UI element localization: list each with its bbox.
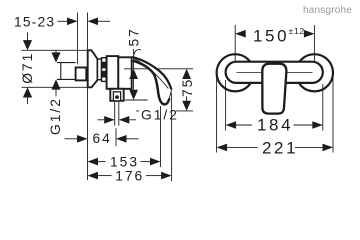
svg-text:64: 64 <box>93 131 112 146</box>
dim G1/2 inlet top arrow <box>51 51 60 63</box>
outlet G1/2 extension line left <box>114 101 116 126</box>
svg-text:G1/2: G1/2 <box>48 97 63 135</box>
axis reference line <box>124 68 193 70</box>
dim G1/2 outlet left arrow <box>98 116 115 124</box>
dim 184 left arrow <box>226 121 252 129</box>
dim 176 right arrow <box>146 172 172 180</box>
svg-text:G1/2: G1/2 <box>141 108 179 123</box>
dim 57 leader line <box>133 49 135 69</box>
lever tip front thin edge <box>169 90 171 98</box>
dim 153 left arrow <box>88 158 106 166</box>
221 extension line left <box>216 74 218 153</box>
dim 57 bottom ref line <box>125 99 148 101</box>
dim O71 bottom extension line <box>22 86 88 88</box>
handle knob (front) <box>262 64 286 114</box>
escutcheon (side) <box>88 50 98 87</box>
cartridge housing <box>118 57 131 89</box>
dim 57 top arrow <box>129 69 138 90</box>
outlet center extension line <box>115 128 117 146</box>
wall line rough-in (min depth) <box>77 13 79 65</box>
outlet inner rect <box>113 92 120 101</box>
dim G1/2 outlet label backing <box>139 109 176 122</box>
axis line left segment <box>237 71 262 73</box>
axis line right segment <box>288 71 313 73</box>
dim 64 right arrow <box>116 135 139 143</box>
lever lower edge and foot <box>133 61 170 105</box>
svg-text:176: 176 <box>115 168 144 183</box>
valve body (side) <box>107 56 119 89</box>
outlet nipple dot <box>115 95 119 99</box>
right escutcheon circle <box>296 54 333 91</box>
ring B stop detail top <box>102 62 106 69</box>
dim 153 right arrow <box>141 158 161 166</box>
lever upper edge <box>132 57 172 89</box>
184 extension line right <box>322 84 324 131</box>
dim 15-23 right arrow <box>88 18 111 26</box>
inlet union bottom line <box>57 78 76 80</box>
dim 75 bottom ref line <box>136 110 193 112</box>
body capsule <box>226 62 323 83</box>
dim 75 top arrow <box>182 69 191 79</box>
svg-text:153: 153 <box>110 155 139 170</box>
ring B <box>102 58 107 82</box>
dim G1/2 outlet right arrow <box>119 116 136 124</box>
extension line handle knee (153) <box>160 106 162 167</box>
wall plane line <box>87 13 89 181</box>
svg-text:150: 150 <box>253 26 289 45</box>
150 centerline into left circle <box>234 54 236 62</box>
dim 221 right arrow <box>295 144 333 152</box>
dim G1/2 inlet bottom arrow <box>51 79 60 96</box>
ring A <box>98 59 102 80</box>
dim O71 top arrow <box>23 33 32 51</box>
svg-text:184: 184 <box>257 115 293 134</box>
extension line lever tip (176) <box>171 93 173 181</box>
svg-text:Ø71: Ø71 <box>20 52 35 84</box>
150 centerline into right circle <box>313 54 315 62</box>
outlet G1/2 extension line right <box>118 101 120 126</box>
lever body fill <box>132 57 172 104</box>
svg-text:75: 75 <box>180 78 195 97</box>
svg-text:hansgrohe: hansgrohe <box>303 5 352 16</box>
dim O71 top extension line <box>22 49 88 51</box>
dim 184 right arrow <box>294 121 323 129</box>
svg-text:221: 221 <box>262 139 298 158</box>
left escutcheon circle <box>217 54 254 91</box>
lever raised-position ghost arc <box>134 50 141 56</box>
svg-text:57: 57 <box>126 27 141 46</box>
svg-text:15-23: 15-23 <box>14 15 55 30</box>
inlet union top line <box>57 62 76 64</box>
dim 75 bottom arrow <box>182 101 191 111</box>
inlet union end edge <box>60 63 62 80</box>
dim 57 bottom arrow <box>129 90 138 100</box>
dim 75 link line <box>186 96 188 101</box>
184 extension line left <box>225 80 227 131</box>
lever inner thin line <box>134 59 168 89</box>
outlet nut <box>110 89 123 101</box>
150 extension line right <box>313 25 315 55</box>
dim 150 right arrow <box>304 30 315 38</box>
inlet s-union body <box>76 68 87 81</box>
dim 221 left arrow <box>217 144 258 152</box>
dim O71 bottom arrow <box>23 87 32 104</box>
150 extension line left <box>234 25 236 55</box>
dim 150 left arrow <box>235 30 246 38</box>
dim 176 left arrow <box>88 172 112 180</box>
dim 15-23 left arrow <box>58 18 78 26</box>
dim 64 left arrow <box>65 135 88 143</box>
svg-text:±12: ±12 <box>289 26 306 36</box>
221 extension line right <box>332 74 334 153</box>
ring B stop detail bottom <box>102 71 106 78</box>
